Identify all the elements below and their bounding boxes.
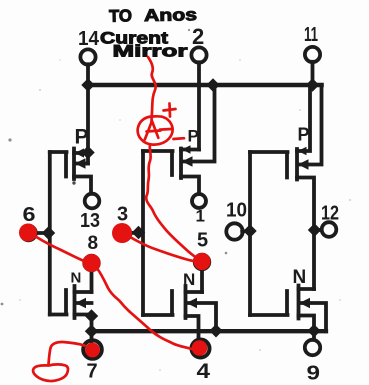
red wire: pin 6 to pin 8 [36,237,86,262]
pin 14 terminal circle [80,49,95,64]
svg-text:12: 12 [321,203,339,225]
svg-text:TO: TO [109,6,132,25]
transistor N2 bulk lead with arrow down to rail [188,303,217,331]
pin 10 terminal circle [226,223,242,239]
svg-text:N: N [71,270,82,287]
transistor P3 drain lead to output line [297,178,314,290]
transistor P3 bulk lead with arrow up to rail [299,85,322,165]
junction pin14-rail [82,79,94,91]
pin 9 label [307,363,321,385]
transistor N1 gate plate and channel [50,286,75,318]
transistor N1 drain lead [75,290,92,294]
svg-text:10: 10 [226,200,247,222]
pin 3 label [117,204,128,226]
pin 8 label [88,233,99,254]
svg-text:9: 9 [307,363,321,385]
pin 5 label [197,230,208,252]
svg-text:4: 4 [197,360,211,383]
pin 11 terminal circle [305,47,320,62]
pin 14 label [78,28,100,50]
junction N2 bulk-rail [210,325,222,337]
handwritten note: TO Anos [109,5,197,26]
pin 10 label [226,200,247,222]
pin 4 red dot [192,340,208,356]
transistor N3 source lead down to pin 9 [299,316,315,340]
transistor P1 source lead [74,151,88,155]
svg-text:13: 13 [80,210,100,232]
pin 9 terminal circle [305,340,320,355]
pin 6 red dot [19,224,37,242]
ammeter minus sign (red) [174,137,185,141]
transistor P3 source lead up to rail [297,85,310,151]
pin 5 red dot [193,253,210,270]
pin 7 red dot [85,343,100,358]
svg-text:P: P [75,126,89,149]
junction pin11-rail [307,79,319,91]
svg-text:P: P [188,127,199,146]
svg-text:6: 6 [23,204,36,226]
svg-text:7: 7 [87,361,98,383]
ammeter A1 letter A (red) [145,121,161,140]
wire gate line pair2 (pin3 net) [141,151,145,315]
red wire: pin 8 to pin 4 [98,269,198,350]
pin 7 terminal circle [83,340,102,359]
pin 6 label [23,204,36,226]
svg-text:Mirror: Mirror [113,42,189,61]
transistor P1 gate plate and channel [50,149,74,180]
svg-text:5: 5 [197,230,208,252]
svg-text:11: 11 [304,24,318,46]
wire pin11 to rail [311,62,315,85]
svg-text:P: P [298,125,310,145]
wire top supply rail VDD [86,83,322,88]
pin 8 red dot [83,254,101,272]
transistor P3 label [298,125,310,145]
wire gate line pair3 (pin10 net) [248,152,252,315]
wire pin3 to gate line [130,231,141,235]
transistor P1 drain lead to pin 13 [74,177,91,194]
red wire: pin 7 tail and lasso loop [33,342,84,381]
transistor P2 bulk lead with arrow [183,85,215,162]
svg-text:1: 1 [196,207,205,226]
transistor N2 source lead down to pin 4 [186,316,199,340]
junction P2 bulk drop on rail [207,79,219,91]
red wire: current mirror note to pin 5 [146,57,202,262]
wire pin2 down through rail to P2 source [197,62,201,149]
pin 4 terminal circle [192,340,210,358]
pin 1 label [196,207,205,226]
transistor N3 gate plate and channel [250,286,299,319]
pin 8 terminal circle [84,256,99,271]
junction pin3 [133,227,145,239]
pin 11 label [304,24,318,46]
transistor N2 gate plate and channel [143,286,186,318]
junction pin6 [43,227,55,239]
pin 3 red dot [112,223,132,243]
pin 12 terminal circle [322,222,337,237]
junction N1 source [86,310,98,322]
pin 1 terminal circle [192,194,206,208]
pin 2 label [192,24,204,49]
transistor N1 source lead [75,315,92,342]
junction pin10 [244,225,256,237]
wire pin5 to N2 drain [200,269,204,292]
transistor N3 drain lead [299,287,315,291]
red wire: pin 3 to pin 5 [130,237,197,262]
transistor N2 label [183,270,195,289]
handwritten note: Curent Mirror [100,29,188,61]
svg-text:8: 8 [88,233,99,254]
transistor N1 bulk lead with arrow [77,301,92,305]
svg-text:Anos: Anos [144,5,197,25]
transistor P2 gate plate and channel [143,149,181,179]
transistor P1 bulk lead with arrow [76,162,88,166]
wire bottom bulk rail VSS [92,329,327,333]
transistor P1 label [75,126,89,149]
wire pin10 to gate line [242,229,249,233]
pin 5 terminal circle [195,255,210,270]
svg-text:14: 14 [78,28,100,50]
pin 13 label [80,210,100,232]
ammeter plus sign (red) [164,104,176,117]
svg-text:3: 3 [117,204,128,226]
pin 3 terminal circle [116,226,131,241]
pin 6 terminal circle [21,226,36,241]
junction N3 source-rail [308,325,320,337]
junction pin7-rail [86,325,98,337]
wire gate line pair1 (pin6 net) [48,152,52,315]
svg-text:2: 2 [192,24,204,49]
transistor N2 drain lead [186,290,203,294]
wire pin8 to N1 drain [90,270,94,292]
transistor N1 label [71,270,82,287]
ammeter A1 dash after A (red) [160,128,171,131]
ammeter A1 circle (red) [138,116,173,144]
transistor P2 label [188,127,199,146]
wire pin12 to output line [315,228,322,232]
wire pin6 to gate line [36,231,48,235]
transistor P3 gate plate and channel [250,149,297,180]
transistor P2 drain lead to pin 1 [181,177,199,195]
pin 13 terminal circle [85,194,100,209]
pin 2 terminal circle [191,47,206,62]
transistor N3 bulk lead with arrow down to rail end [301,303,327,331]
pin 7 label [87,361,98,383]
wire pin14 to rail and P1 source/bulk [86,64,90,163]
transistor N3 label [293,267,307,288]
junction pin12 [309,224,321,236]
junction P1 source [82,147,94,159]
pin 12 label [321,203,339,225]
transistor P2 source lead [181,148,199,152]
pin 4 label [197,360,211,383]
